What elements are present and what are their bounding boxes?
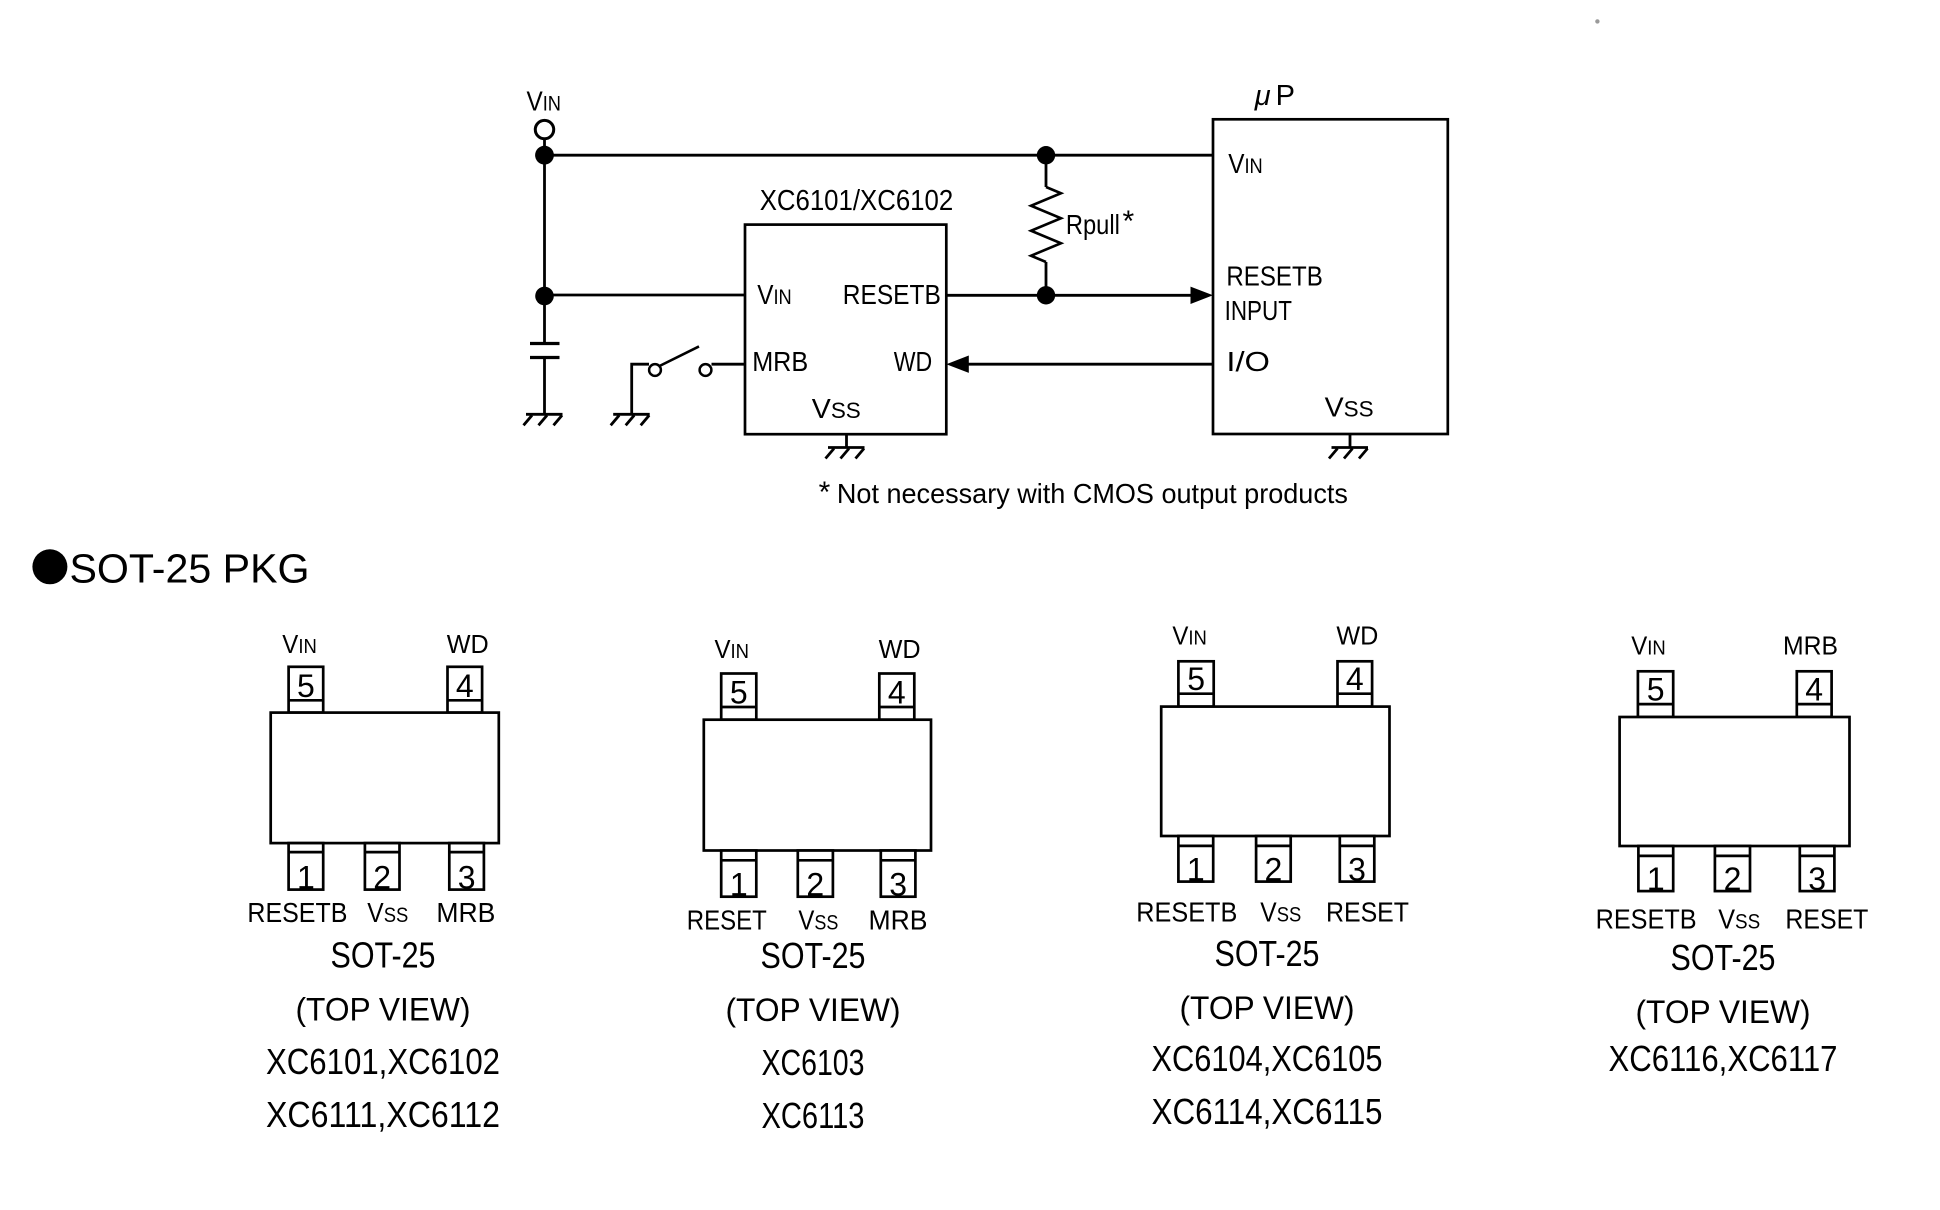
- svg-text:Rpull: Rpull: [1066, 209, 1120, 240]
- svg-text:VSS: VSS: [1325, 392, 1374, 423]
- pin 5 box (top) of package 3: [1178, 661, 1213, 706]
- svg-text:SOT-25: SOT-25: [1215, 933, 1320, 974]
- pin 1 box (bottom) of package 1: [289, 843, 324, 890]
- svg-text:4: 4: [888, 675, 906, 711]
- pin 4 divider of package 2: [879, 706, 914, 709]
- svg-text:2: 2: [806, 867, 824, 903]
- svg-text:(TOP VIEW): (TOP VIEW): [1636, 994, 1811, 1030]
- wire to VIN pin of U1: [545, 294, 746, 297]
- svg-text:XC6116,XC6117: XC6116,XC6117: [1609, 1038, 1838, 1079]
- svg-text:MRB: MRB: [436, 897, 495, 928]
- terminal VIN open circle: [535, 120, 553, 138]
- pin 4 divider of package 3: [1338, 692, 1373, 695]
- pin 4 box (top) of package 2: [879, 674, 914, 720]
- pin 5 divider of package 1: [289, 699, 324, 702]
- svg-text:XC6103: XC6103: [762, 1042, 865, 1083]
- svg-text:(TOP VIEW): (TOP VIEW): [1180, 990, 1355, 1026]
- svg-text:*: *: [1123, 205, 1135, 238]
- package 3 body outline: [1161, 707, 1389, 836]
- pin 2 divider of package 2: [798, 859, 833, 862]
- pin 1 divider of package 3: [1178, 845, 1213, 848]
- arrowhead into WD: [946, 356, 969, 373]
- capacitor C1 top plate: [530, 342, 560, 345]
- pin 3 box (bottom) of package 3: [1340, 836, 1375, 882]
- pin 5 divider of package 4: [1638, 703, 1673, 706]
- capacitor C1 bottom plate: [530, 356, 560, 359]
- svg-text:4: 4: [456, 668, 474, 704]
- wire top VIN rail: [545, 154, 1214, 157]
- pin 1 box (bottom) of package 2: [721, 851, 756, 897]
- svg-text:1: 1: [297, 860, 315, 896]
- svg-text:XC6114,XC6115: XC6114,XC6115: [1152, 1091, 1383, 1132]
- wire RESETB to uP: [946, 294, 1194, 297]
- svg-text:WD: WD: [894, 346, 933, 377]
- svg-text:3: 3: [1808, 861, 1826, 897]
- arrowhead into RESETB INPUT: [1191, 287, 1214, 304]
- wire U1 VSS to ground: [845, 434, 848, 447]
- svg-text:XC6113: XC6113: [762, 1095, 865, 1136]
- svg-text:XC6104,XC6105: XC6104,XC6105: [1152, 1038, 1383, 1079]
- svg-text:1: 1: [730, 867, 748, 903]
- section bullet: [32, 549, 67, 584]
- svg-text:RESET: RESET: [1326, 897, 1409, 928]
- svg-text:RESETB: RESETB: [843, 279, 941, 310]
- svg-text:(TOP VIEW): (TOP VIEW): [296, 991, 471, 1027]
- svg-text:MRB: MRB: [752, 346, 808, 377]
- pin 2 divider of package 1: [365, 851, 400, 854]
- switch SW1 right contact: [700, 364, 712, 376]
- pin 2 box (bottom) of package 2: [798, 851, 833, 897]
- wire left vertical VIN down: [543, 155, 546, 296]
- pin 3 divider of package 2: [881, 859, 916, 862]
- switch SW1 lever: [660, 346, 700, 366]
- resistor Rpull zigzag: [1031, 187, 1061, 262]
- svg-text:4: 4: [1346, 661, 1364, 697]
- pin 1 divider of package 4: [1638, 855, 1673, 858]
- package 2 body outline: [704, 720, 931, 851]
- junction dot VIN rail at Rpull: [1037, 146, 1055, 164]
- pin 3 box (bottom) of package 2: [881, 851, 916, 897]
- svg-text:WD: WD: [447, 629, 489, 659]
- svg-text:1: 1: [1647, 861, 1665, 897]
- pin 3 divider of package 1: [449, 851, 484, 854]
- pin 4 divider of package 1: [448, 699, 483, 702]
- svg-text:RESET: RESET: [687, 904, 767, 935]
- svg-text:RESETB: RESETB: [1596, 904, 1697, 935]
- svg-text:5: 5: [297, 668, 315, 704]
- package 1 body outline: [271, 713, 499, 844]
- pin 2 box (bottom) of package 4: [1715, 846, 1750, 891]
- svg-text:INPUT: INPUT: [1225, 295, 1292, 326]
- svg-text:Not necessary with CMOS output: Not necessary with CMOS output products: [837, 478, 1348, 509]
- pin 4 box (top) of package 3: [1338, 661, 1373, 706]
- package 4 body outline: [1620, 717, 1850, 846]
- svg-text:4: 4: [1805, 672, 1823, 708]
- svg-text:RESETB: RESETB: [1136, 897, 1237, 928]
- pin 5 box (top) of package 1: [289, 667, 324, 713]
- wire VIN stub circle-to-junction: [543, 139, 546, 148]
- svg-text:I/O: I/O: [1226, 346, 1270, 377]
- svg-text:WD: WD: [1336, 621, 1378, 651]
- pin 5 divider of package 3: [1178, 692, 1213, 695]
- pin 1 box (bottom) of package 3: [1178, 836, 1213, 882]
- pin 5 box (top) of package 2: [721, 674, 756, 720]
- pin 4 box (top) of package 4: [1797, 671, 1832, 717]
- svg-text:VSS: VSS: [812, 393, 861, 424]
- wire uP VSS to ground: [1349, 434, 1352, 448]
- svg-text:2: 2: [373, 860, 391, 896]
- pin 1 divider of package 1: [289, 851, 324, 854]
- svg-text:RESETB: RESETB: [247, 897, 347, 928]
- op-amp U1 XC6101/XC6102 body: [745, 225, 946, 435]
- svg-text:2: 2: [1724, 861, 1742, 897]
- svg-text:SOT-25 PKG: SOT-25 PKG: [70, 545, 310, 591]
- svg-text:(TOP VIEW): (TOP VIEW): [726, 992, 901, 1028]
- wire Rpull top lead: [1045, 155, 1048, 187]
- pin 3 box (bottom) of package 1: [449, 843, 484, 890]
- svg-text:5: 5: [1187, 661, 1205, 697]
- svg-text:*: *: [819, 476, 831, 509]
- svg-text:3: 3: [1348, 852, 1366, 888]
- wire I/O to WD: [968, 363, 1213, 366]
- pin 3 box (bottom) of package 4: [1800, 846, 1835, 891]
- wire capacitor to ground: [543, 358, 546, 415]
- svg-text:RESET: RESET: [1785, 904, 1868, 935]
- pin 5 box (top) of package 4: [1638, 671, 1673, 717]
- pin 3 divider of package 4: [1800, 855, 1835, 858]
- pin 2 divider of package 4: [1715, 855, 1750, 858]
- pin 3 divider of package 3: [1340, 845, 1375, 848]
- stray speck top right: [1595, 19, 1599, 23]
- svg-text:1: 1: [1187, 852, 1205, 888]
- pin 2 box (bottom) of package 3: [1256, 836, 1291, 882]
- svg-text:SOT-25: SOT-25: [1671, 937, 1776, 978]
- junction dot RESETB node: [1037, 286, 1055, 304]
- svg-text:5: 5: [730, 675, 748, 711]
- svg-text:3: 3: [889, 867, 907, 903]
- microprocessor U2 body: [1213, 119, 1448, 434]
- pin 4 divider of package 4: [1797, 703, 1832, 706]
- svg-text:WD: WD: [879, 634, 921, 664]
- ground under U1: [826, 448, 865, 459]
- wire Rpull bottom lead: [1045, 262, 1048, 295]
- svg-text:XC6101,XC6102: XC6101,XC6102: [266, 1041, 500, 1082]
- svg-text:SOT-25: SOT-25: [331, 934, 436, 975]
- pin 5 divider of package 2: [721, 706, 756, 709]
- ground under uP: [1329, 448, 1368, 459]
- svg-text:SOT-25: SOT-25: [761, 935, 866, 976]
- junction dot VIN rail left: [535, 146, 554, 165]
- wire switch to MRB pin: [712, 363, 746, 366]
- pin 4 box (top) of package 1: [448, 667, 483, 713]
- pin 1 box (bottom) of package 4: [1638, 846, 1673, 891]
- switch SW1 left contact: [649, 364, 661, 376]
- svg-text:XC6111,XC6112: XC6111,XC6112: [266, 1094, 500, 1135]
- svg-text:MRB: MRB: [1783, 631, 1838, 661]
- wire switch leg L: [632, 364, 649, 414]
- svg-text:MRB: MRB: [869, 904, 928, 935]
- junction dot VIN/cap node: [535, 287, 554, 306]
- pin 2 divider of package 3: [1256, 845, 1291, 848]
- svg-text:RESETB: RESETB: [1226, 261, 1322, 292]
- pin 2 box (bottom) of package 1: [365, 843, 400, 890]
- svg-text:2: 2: [1265, 852, 1283, 888]
- ground under capacitor: [524, 414, 563, 425]
- pin 1 divider of package 2: [721, 859, 756, 862]
- ground under switch: [611, 414, 650, 425]
- svg-text:3: 3: [458, 860, 476, 896]
- wire junction to capacitor: [543, 296, 546, 344]
- svg-text:5: 5: [1647, 672, 1665, 708]
- svg-text:XC6101/XC6102: XC6101/XC6102: [760, 185, 954, 217]
